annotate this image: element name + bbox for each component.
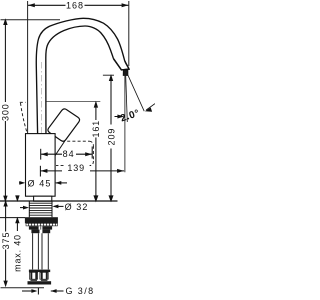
dimension diameter 32 [20,202,89,212]
svg-text:Ø 45: Ø 45 [28,179,52,189]
angle arrow right [146,104,155,110]
body [26,134,56,197]
threaded shank [29,201,52,217]
angle 2.0 deg rays [124,76,126,173]
svg-text:209: 209 [106,128,116,146]
base gasket [34,196,52,201]
dimension 300 left [1,18,11,202]
svg-text:Ø 32: Ø 32 [65,202,89,212]
dashed handle position left [20,102,28,136]
svg-text:161: 161 [91,120,101,138]
svg-text:300: 300 [1,103,11,121]
angle arrow left [115,116,123,118]
extension line top of dim 300 [1,19,61,21]
dimension 375 [1,200,11,287]
counter underside line [0,217,25,219]
svg-text:168: 168 [66,1,84,11]
dimension max 40 [12,195,22,271]
adapter blocks below nut [29,226,39,229]
centerline faucet axis [40,62,42,197]
counter top line [0,200,118,202]
svg-text:139: 139 [67,163,85,173]
dimension G 3/8 [22,286,95,296]
extension line handle top (161) [47,101,101,103]
svg-text:max. 40: max. 40 [12,234,22,272]
dimension 161 [91,101,101,203]
dimension 139 [40,163,124,177]
dimension 209 [106,74,116,202]
hose end fittings G3/8 [28,270,52,285]
extension line spout outlet (209) [103,74,114,76]
svg-text:84: 84 [63,149,75,159]
handle closed-position edge [47,141,65,168]
dashed handle position down [56,141,93,165]
washer and mounting nut [25,217,58,223]
spout tip thick end [114,59,130,70]
dimension 84 [41,147,92,160]
dimension 168 top [28,1,128,11]
svg-text:375: 375 [1,232,11,250]
handle lever [48,109,80,141]
extension line hose bottom [1,287,45,289]
angle leader line [128,75,144,111]
extension line left of dim 168 [27,1,29,134]
hoses [33,233,49,269]
spout outline [36,18,129,133]
extension line right of dim 168 [128,1,130,66]
dimension diameter 45 [19,179,67,189]
svg-text:G 3/8: G 3/8 [66,286,95,296]
spout tip aerator nub [123,70,128,75]
nut knurl band [26,223,57,226]
